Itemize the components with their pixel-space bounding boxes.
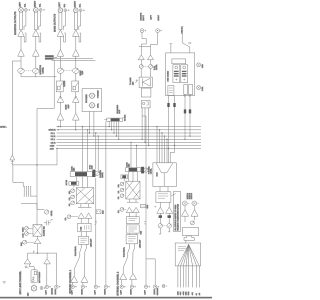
connector J13 USB port <box>197 63 201 67</box>
potentiometer VR14 ch1 level <box>67 215 78 219</box>
block USB connector <box>141 101 150 108</box>
svg-text:LVL: LVL <box>64 217 67 220</box>
block title strip <box>174 192 181 232</box>
svg-text:RIGHT: RIGHT <box>81 288 84 294</box>
svg-text:PH: PH <box>68 203 71 206</box>
op-amp U12 2-track R <box>148 55 154 60</box>
svg-text:BAL/UNBAL: BAL/UNBAL <box>74 246 77 256</box>
block ch2 stage A <box>126 217 139 224</box>
wire ch2 bus drops <box>130 142 137 168</box>
connector J19 ch1 L <box>71 285 77 288</box>
connector J11 RCA 2-track L <box>140 29 146 33</box>
wire usb return staircase <box>169 146 175 163</box>
svg-text:TO BUS: TO BUS <box>124 114 127 121</box>
connector J14 aux port <box>197 86 201 90</box>
svg-text:USB CODEC: USB CODEC <box>166 70 169 81</box>
page bottom edge <box>0 297 212 299</box>
wire line jack L up <box>46 264 48 285</box>
svg-text:MIC / LINE CHANNEL: MIC / LINE CHANNEL <box>19 270 22 294</box>
resistor network RN3 <box>107 116 125 121</box>
wire ch2 amps to boxA <box>129 213 136 217</box>
potentiometer VR8 high <box>25 226 34 230</box>
svg-text:LEVEL: LEVEL <box>150 168 153 174</box>
svg-text:PH R: PH R <box>51 135 56 138</box>
svg-text:MONITOR OUTPUTS: MONITOR OUTPUTS <box>14 11 17 35</box>
op-amp U8 main right stage2 <box>73 49 80 56</box>
op-amp U18 ch1 sum L <box>78 213 85 219</box>
potentiometer VR13 ch1 c <box>71 201 75 205</box>
connector J9 phones jack 1 <box>89 93 96 98</box>
svg-text:RIGHT: RIGHT <box>73 0 76 7</box>
connector J10 phones jack 2 <box>89 103 96 108</box>
connector J26 2-track out R <box>154 285 160 288</box>
connector mains inlet <box>184 236 194 243</box>
op-amp U16 mic input amp <box>24 259 31 264</box>
svg-text:+48V: +48V <box>182 290 185 295</box>
potentiometer VR18 ch2 a <box>120 182 124 186</box>
svg-text:RIGHT: RIGHT <box>54 288 57 294</box>
wire rn4 to ch2 matrix <box>124 172 137 182</box>
svg-text:LVL: LVL <box>117 210 120 213</box>
wire jacks ch2 <box>122 280 132 285</box>
ground chassis <box>156 285 167 296</box>
svg-text:(MONO): (MONO) <box>50 288 53 295</box>
resistor R1 usb sum L1 <box>167 96 169 150</box>
svg-text:LEVEL: LEVEL <box>50 210 53 216</box>
wire rn1 to matrix <box>74 177 88 188</box>
svg-text:PWR: PWR <box>201 86 204 91</box>
wire 2tk lines up <box>96 121 106 285</box>
switch SW phantom mark <box>25 266 29 269</box>
wire phones pot lines <box>95 132 99 171</box>
switch SW1 main left <box>56 81 63 92</box>
wire 2-track routing <box>139 33 158 55</box>
svg-text:AC: AC <box>198 292 201 295</box>
svg-text:BAL: BAL <box>39 4 42 7</box>
wire monitor pots to ctrl line <box>21 74 57 77</box>
wire ctrl tap <box>56 148 57 165</box>
svg-text:CTRL: CTRL <box>96 103 99 108</box>
block buffer <box>141 88 151 97</box>
potentiometer VR15 out L <box>158 224 162 228</box>
connector box phones <box>82 89 102 112</box>
block ch2 input stage <box>126 235 138 244</box>
inductor L2 ferrite R <box>168 213 171 223</box>
transformer TR1 striped block <box>45 55 57 59</box>
svg-text:USB: USB <box>80 226 83 230</box>
svg-text:RIGHT: RIGHT <box>157 14 160 20</box>
svg-text:PHONES: PHONES <box>85 94 88 103</box>
wire funnel to master <box>160 187 176 197</box>
wire bus drops to funnel <box>156 126 167 163</box>
wire main left strip <box>59 12 65 30</box>
op-amp U10 sum R <box>73 96 80 102</box>
op-amp U5 main left driver <box>57 30 64 37</box>
block routing matrix <box>76 188 93 204</box>
op-amp U6 main left stage2 <box>57 49 64 56</box>
svg-text:PH: PH <box>117 196 120 199</box>
op-amp U9 sum L <box>57 96 64 102</box>
connector J17 line L <box>45 285 51 288</box>
svg-text:RIGHT: RIGHT <box>130 288 133 294</box>
connector J4 jack monitor right <box>39 9 45 12</box>
switch SW2 main right <box>72 81 79 92</box>
svg-text:PAN: PAN <box>20 242 23 246</box>
svg-text:PHONES: PHONES <box>96 90 99 98</box>
connector J24 ch2 R <box>130 285 136 288</box>
wire <box>20 56 22 68</box>
bus line 8 <box>57 148 202 150</box>
wire <box>154 202 169 207</box>
svg-text:MODE: MODE <box>63 80 66 86</box>
wire <box>76 33 81 49</box>
op-amp U22 ch2 L <box>120 273 127 279</box>
wire <box>35 56 37 68</box>
wire trapezoid ch1 <box>74 244 86 276</box>
wire amps to bus <box>60 120 77 130</box>
bus line 4 <box>57 135 202 137</box>
wire pots to switches <box>60 73 75 81</box>
potentiometer VR2 monitor level R (ganged) <box>24 68 39 73</box>
svg-text:LVL: LVL <box>68 197 71 200</box>
lamp LED R <box>192 201 199 206</box>
svg-text:MIC: MIC <box>27 292 30 296</box>
svg-text:RIGHT: RIGHT <box>104 288 107 294</box>
potentiometer VR6 2-track level R (ganged) <box>143 65 152 69</box>
connector J25 2-track out L <box>144 285 150 288</box>
svg-text:USB: USB <box>201 64 204 68</box>
svg-text:SRC: SRC <box>101 210 104 214</box>
op-amp U21 ch1 R <box>81 276 88 282</box>
svg-text:RIGHT: RIGHT <box>153 288 156 294</box>
bus line 1 <box>57 126 202 127</box>
wire bus drops to resistor bar <box>82 126 88 172</box>
wire meter <box>185 206 195 222</box>
wire switches to amps <box>60 92 75 99</box>
svg-text:LEFT: LEFT <box>150 14 153 19</box>
svg-text:LEFT: LEFT <box>58 2 61 8</box>
block power supply <box>175 243 201 266</box>
wire <box>75 56 77 60</box>
wire psu outputs <box>178 266 199 288</box>
wire master end marks <box>159 228 170 235</box>
svg-text:SRC: SRC <box>146 204 149 208</box>
svg-text:+15V: +15V <box>177 290 180 295</box>
wire ch2 matrix to amps <box>127 199 139 202</box>
svg-text:CR L: CR L <box>51 138 56 141</box>
resistor network RN1 <box>70 172 92 177</box>
svg-text:USB I/O: USB I/O <box>180 26 183 33</box>
switch SW5 ch2 source <box>141 204 146 207</box>
block USB codec ch <box>78 223 92 231</box>
block monitor select <box>139 77 152 87</box>
svg-text:LEFT: LEFT <box>19 1 22 7</box>
svg-text:USB: USB <box>140 230 143 234</box>
op-amp U19 ch1 sum R <box>85 213 92 219</box>
connector J22 2-track in R <box>104 285 110 288</box>
wire <box>36 33 41 49</box>
potentiometer VR16 out R <box>163 224 172 228</box>
wire between amp rows <box>60 102 75 113</box>
op-amp U24 master L <box>157 207 164 213</box>
block psu pre-regulator <box>182 228 198 236</box>
potentiometer VR10 pan <box>23 240 35 244</box>
block ch2 phones tap + pot <box>141 167 148 174</box>
wire amps to usb codec box <box>81 218 88 223</box>
connector J15 XLR mic <box>31 284 37 291</box>
bus line 7 <box>57 145 202 147</box>
wire main mix R line <box>52 59 96 61</box>
connector J7 XLR main right <box>74 7 79 13</box>
svg-text:MUTE: MUTE <box>65 179 68 185</box>
resistor network RN4 <box>126 168 141 172</box>
potentiometer VR1 monitor level L <box>18 68 24 73</box>
svg-text:MAIN L: MAIN L <box>0 126 8 129</box>
block ch2 stage B <box>126 225 139 233</box>
wire monitor feed line <box>12 61 21 155</box>
op-amp U20 ch1 L <box>71 276 78 282</box>
wire tick on mic join <box>33 251 35 254</box>
svg-text:CR R: CR R <box>51 141 56 144</box>
svg-text:CHASSIS: CHASSIS <box>156 287 159 295</box>
connector J1 XLR monitor left <box>19 7 24 13</box>
block master stage <box>156 192 171 203</box>
resistor network RN5 <box>121 175 128 179</box>
op-amp U14 aux send amp <box>10 155 15 160</box>
wire L bend <box>13 165 23 182</box>
svg-text:BAL: BAL <box>117 184 120 187</box>
connector J2 jack monitor left <box>25 9 31 12</box>
wire jacks ch1 <box>73 282 83 285</box>
connector J12 RCA 2-track R <box>156 29 162 33</box>
op-amp U2 monitor left stage2 <box>18 49 25 56</box>
svg-text:0V: 0V <box>195 292 198 295</box>
op-amp U28 ch2 sum L <box>126 207 133 212</box>
svg-text:PH L: PH L <box>51 132 56 135</box>
bus line 5 <box>57 138 202 140</box>
op-amp U17 line input amp <box>44 259 51 264</box>
connector header comb <box>23 182 37 196</box>
potentiometer VR17 meter trim <box>190 221 194 225</box>
op-amp U10b drive R <box>73 113 80 120</box>
svg-text:LEVEL: LEVEL <box>155 64 158 70</box>
wire mic amp to preamp <box>29 264 34 270</box>
op-amp U7 main right driver <box>73 30 80 37</box>
op-amp U9b drive L <box>57 113 64 120</box>
potentiometer VR4 main level R (ganged) <box>64 68 79 73</box>
wire main mix L line <box>54 57 93 59</box>
connector J3 XLR monitor right <box>34 7 39 13</box>
svg-text:AMP: AMP <box>67 104 70 109</box>
potentiometer VR9 low <box>25 232 34 236</box>
svg-text:BAL: BAL <box>63 4 66 7</box>
potentiometer VR11 ch1 a <box>71 189 75 193</box>
switch SW3 2-track assign mark <box>135 79 138 83</box>
bus line 6 <box>57 141 202 143</box>
potentiometer VR7 mic level <box>44 210 48 214</box>
svg-text:BAL: BAL <box>24 4 27 7</box>
connector J21 2-track in L <box>94 285 100 288</box>
lamp LED L <box>182 201 189 206</box>
svg-text:BAL: BAL <box>68 191 71 194</box>
wire main right strip <box>74 12 80 30</box>
svg-text:SUM: SUM <box>155 172 158 176</box>
op-amp U11 2-track L <box>138 55 144 60</box>
svg-text:MAIN R: MAIN R <box>49 129 57 132</box>
wire <box>21 33 26 49</box>
svg-text:-15V: -15V <box>50 148 55 151</box>
wire mic trunk top <box>37 60 54 226</box>
svg-text:2-BAND EQ: 2-BAND EQ <box>42 226 45 236</box>
wire join <box>28 244 57 285</box>
resistor R4 usb sum R2 <box>189 96 191 137</box>
svg-text:UNLESS OTHERWISE NOTED: UNLESS OTHERWISE NOTED <box>177 203 180 230</box>
switch SW4 source select <box>96 210 101 214</box>
wire rn3 drops <box>104 120 119 140</box>
block EQ with X <box>33 225 42 237</box>
op-amp U25 master R <box>166 207 173 213</box>
wire drops to main pots <box>60 58 75 68</box>
connector J18 line R <box>55 285 61 288</box>
resistor R3 usb sum R1 <box>184 96 186 141</box>
svg-text:LEFT: LEFT <box>93 289 96 294</box>
wire <box>59 56 61 58</box>
svg-text:INPUT: INPUT <box>142 14 145 20</box>
bus line 2 <box>57 129 202 130</box>
svg-text:LVL: LVL <box>117 190 120 193</box>
svg-text:LINE AMP: LINE AMP <box>139 239 142 248</box>
svg-text:BAL/UNBAL: BAL/UNBAL <box>122 247 125 257</box>
wire pots to monitor block <box>141 69 150 78</box>
svg-text:-15V: -15V <box>179 291 182 295</box>
svg-text:LINE AMP: LINE AMP <box>89 238 92 247</box>
svg-text:+15V: +15V <box>50 144 55 147</box>
svg-text:LOW: LOW <box>22 233 25 237</box>
wire codec to ch1 input box <box>81 232 86 237</box>
svg-text:HIGH: HIGH <box>22 227 25 232</box>
wire marks <box>11 162 14 164</box>
inductor L1 ferrite L <box>159 213 162 223</box>
potentiometer VR12 ch1 b <box>71 195 75 199</box>
svg-text:LEVEL: LEVEL <box>41 66 44 73</box>
wire <box>141 60 150 65</box>
svg-text:GND: GND <box>187 291 190 296</box>
block summing funnel <box>153 163 176 187</box>
svg-text:LEVEL: LEVEL <box>101 172 104 178</box>
op-amp U27 meter R <box>191 210 198 217</box>
svg-text:LEFT: LEFT <box>144 289 147 294</box>
wire monitor left strip <box>20 11 26 30</box>
block ch1 input stage <box>78 237 88 245</box>
wire matrix to amps <box>78 204 92 208</box>
bus line 3 <box>57 132 202 134</box>
wire trapezoid ch2 <box>123 244 134 273</box>
ground corner mark <box>3 282 6 284</box>
wire usb feeds <box>170 27 192 53</box>
svg-text:NOTE 3: NOTE 3 <box>190 193 193 199</box>
wire aux line <box>12 160 57 166</box>
wire ticks on 2tk riser <box>144 221 146 224</box>
op-amp U29 ch2 sum R <box>133 207 140 212</box>
block ch2 routing matrix <box>126 181 140 199</box>
op-amp U23 ch2 R <box>130 273 137 279</box>
potentiometer VR20 ch2 c <box>120 194 124 198</box>
svg-text:+5V: +5V <box>191 291 194 295</box>
connector J16 mic jack <box>40 287 45 290</box>
svg-text:LEFT: LEFT <box>119 289 122 294</box>
svg-text:MAIN OUTPUTS: MAIN OUTPUTS <box>54 14 57 32</box>
op-amp U4 monitor right stage2 <box>33 49 40 56</box>
block mic preamp <box>31 270 37 283</box>
resistor R2 usb sum L2 <box>173 96 175 147</box>
svg-text:LEFT: LEFT <box>44 289 47 294</box>
potentiometer VR19 ch2 b <box>120 188 124 192</box>
wire eq to amp <box>37 236 39 238</box>
svg-text:GND: GND <box>185 291 188 296</box>
svg-text:RIGHT: RIGHT <box>33 0 36 7</box>
svg-text:STEREO CHANNEL 2: STEREO CHANNEL 2 <box>117 271 120 295</box>
svg-text:MIC PREAMP: MIC PREAMP <box>38 271 41 283</box>
op-amp U1 monitor left driver <box>18 30 25 37</box>
wire ch2 stageB to input box <box>129 233 136 235</box>
wire mic trunk lower <box>21 196 44 209</box>
op-amp U3 monitor right driver <box>33 30 40 37</box>
wire <box>60 33 65 49</box>
wire usb block to bus <box>141 108 149 146</box>
connector J6 jack main left <box>64 9 70 12</box>
op-amp U15 channel amp <box>34 239 41 244</box>
op-amp U26 meter L <box>182 210 189 217</box>
wire 2tk out lines up <box>142 116 155 285</box>
connector J23 ch2 L <box>120 285 126 288</box>
capacitor C1 mute symbol <box>44 219 52 225</box>
wire phones box to bus <box>89 112 95 137</box>
connector J5 XLR main left <box>58 7 63 13</box>
connector J20 ch1 R <box>81 285 87 288</box>
resistor network RN2 <box>69 182 79 186</box>
svg-text:STEREO CHANNEL 1: STEREO CHANNEL 1 <box>69 269 72 293</box>
svg-text:BAL: BAL <box>79 4 82 7</box>
potentiometer VR5 2-track level L <box>139 65 143 69</box>
potentiometer VR21 ch2 level <box>120 208 126 212</box>
potentiometer VR3 main level L <box>57 68 63 73</box>
block phones tap + pot <box>92 170 99 177</box>
label right of codec <box>95 221 97 225</box>
connector J8 jack main right <box>79 9 85 12</box>
block U13 USB audio codec <box>166 53 195 96</box>
wire monitor right strip <box>34 11 40 30</box>
